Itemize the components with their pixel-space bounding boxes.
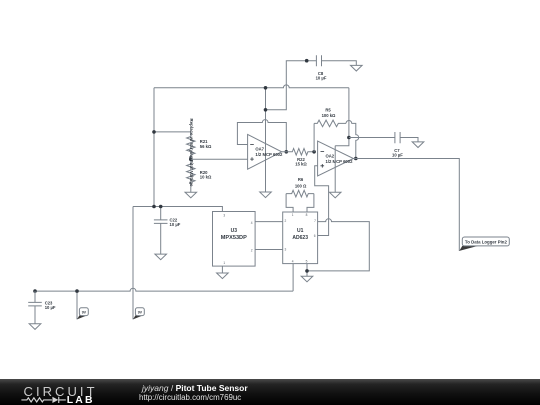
node pin5/loop junction	[305, 269, 309, 273]
svg-text:5: 5	[306, 260, 308, 264]
flag 9V right	[133, 315, 143, 319]
svg-text:1/2 MCP 6002: 1/2 MCP 6002	[326, 159, 354, 164]
svg-text:9V: 9V	[138, 310, 143, 314]
wire 9V branch down to flag	[132, 207, 134, 320]
footer title	[142, 384, 248, 393]
resistor R6 gain	[286, 194, 293, 212]
ground below R20	[190, 187, 192, 193]
wire U1 pin5 stub	[306, 264, 308, 277]
flag To Data Logger Pin2	[459, 246, 478, 251]
node 9V stub	[75, 289, 79, 293]
wire OA2 power through to ground	[334, 146, 336, 193]
wire OA2 V+ from rail with C7 tap	[335, 88, 349, 146]
svg-text:1: 1	[292, 213, 294, 217]
resistor R5 feedback	[313, 123, 315, 151]
node junction rail/R21 branch	[152, 130, 156, 134]
wire C8 to ground	[322, 61, 357, 66]
wire U3 pin2 to U1 pin3	[255, 249, 283, 251]
svg-text:To Data Logger Pin2: To Data Logger Pin2	[465, 239, 507, 244]
wire bottom 9V rail	[35, 288, 293, 291]
op-amp OA2	[318, 141, 354, 176]
wire 9V flag stub	[76, 291, 78, 319]
wire U3 pin1 to ground	[221, 266, 223, 273]
svg-text:7: 7	[314, 219, 316, 223]
svg-text:100 kΩ: 100 kΩ	[322, 113, 336, 118]
svg-text:3: 3	[285, 247, 287, 251]
svg-text:AD623: AD623	[292, 235, 308, 241]
node C8 branch junction	[264, 108, 268, 112]
ground OA7 V-	[260, 192, 272, 198]
wire U1 pin4 to bottom 9V rail	[292, 264, 294, 292]
wire C8 branch from OA7 supply	[266, 61, 317, 110]
op-amp OA7	[248, 134, 282, 169]
ground OA2 V-	[329, 192, 341, 198]
footer bar	[0, 379, 540, 405]
wire branch to R21 top	[154, 131, 191, 133]
wire OA2 output to data logger	[353, 159, 459, 251]
footer url	[139, 393, 241, 402]
node C23 junction	[33, 289, 37, 293]
ground below C22	[155, 254, 167, 260]
svg-text:10 µF: 10 µF	[45, 305, 56, 310]
IC U1 AD623	[283, 212, 318, 264]
svg-text:56 kΩ: 56 kΩ	[200, 144, 212, 149]
svg-text:9V: 9V	[82, 310, 87, 314]
svg-text:U3: U3	[231, 228, 238, 234]
svg-text:R5: R5	[325, 108, 331, 113]
svg-text:MPX53DP: MPX53DP	[221, 235, 248, 241]
svg-text:2: 2	[285, 219, 287, 223]
node R5 to output	[354, 157, 358, 161]
svg-text:10 µF: 10 µF	[170, 222, 181, 227]
svg-text:15 kΩ: 15 kΩ	[295, 162, 307, 167]
node C7 tap	[347, 136, 351, 140]
svg-text:2: 2	[251, 249, 253, 253]
wire C7 to ground	[400, 138, 418, 142]
svg-text:100 Ω: 100 Ω	[295, 183, 307, 188]
svg-text:OA2: OA2	[326, 154, 335, 159]
svg-text:Replace w/ Varying Pitot Volta: Replace w/ Varying Pitot Voltage	[189, 119, 194, 188]
capacitor C8	[316, 55, 321, 66]
node left vertical joins supply rail	[152, 205, 156, 209]
IC U3 MPX53DP	[213, 212, 256, 267]
node C22 tap	[159, 205, 163, 209]
svg-text:R6: R6	[298, 177, 304, 182]
resistor R20	[187, 159, 195, 186]
svg-text:10 µF: 10 µF	[316, 76, 327, 81]
svg-text:U1: U1	[297, 228, 304, 234]
ground right of C7	[412, 142, 424, 148]
capacitor C23	[34, 291, 36, 302]
ground below U3	[217, 273, 229, 279]
resistor R21	[187, 132, 195, 159]
node OA2 inverting input	[312, 150, 316, 154]
wire 9V top rail	[154, 85, 349, 88]
node OA7 output	[285, 150, 289, 154]
capacitor C22	[160, 207, 162, 220]
wire to C7	[349, 137, 395, 139]
capacitor C7	[395, 132, 400, 143]
wire OA7 feedback loop	[237, 120, 286, 152]
node junction R21/R20 to op-amp	[189, 157, 193, 161]
ground below C23	[29, 324, 41, 330]
svg-text:4: 4	[292, 260, 294, 264]
svg-text:8: 8	[306, 213, 308, 217]
svg-text:1/2 MCP 6002: 1/2 MCP 6002	[255, 152, 283, 157]
ground right of C8	[351, 65, 363, 71]
svg-text:3: 3	[223, 214, 225, 218]
svg-text:4: 4	[251, 221, 253, 225]
wire OA7 power vertical (V+ to V-)	[265, 88, 267, 192]
node OA7 V+ tap on rail	[264, 86, 268, 90]
flag 9V left	[77, 315, 87, 319]
svg-text:OA7: OA7	[255, 146, 264, 151]
wire sensor supply rail	[133, 207, 222, 212]
svg-text:1: 1	[223, 261, 225, 265]
wire U3 pin4 to U1 pin2	[255, 221, 283, 223]
node on C8 wire	[305, 59, 309, 63]
svg-text:6: 6	[314, 234, 316, 238]
ground below U1 pin5	[301, 276, 313, 282]
svg-text:10 kΩ: 10 kΩ	[200, 175, 212, 180]
CircuitLab logo symbol row	[21, 395, 67, 405]
resistor R22	[282, 149, 315, 156]
wire U1 pin6 to OA2 + input	[315, 166, 329, 236]
CircuitLab logo CIRCUIT	[24, 385, 98, 398]
wire U1 pin7 loop to pin5	[307, 219, 369, 271]
svg-text:10 µF: 10 µF	[392, 153, 403, 158]
wire left vertical from top rail down to sensor supply rail	[153, 88, 155, 207]
wire divider tap to OA7 + input	[191, 158, 248, 160]
